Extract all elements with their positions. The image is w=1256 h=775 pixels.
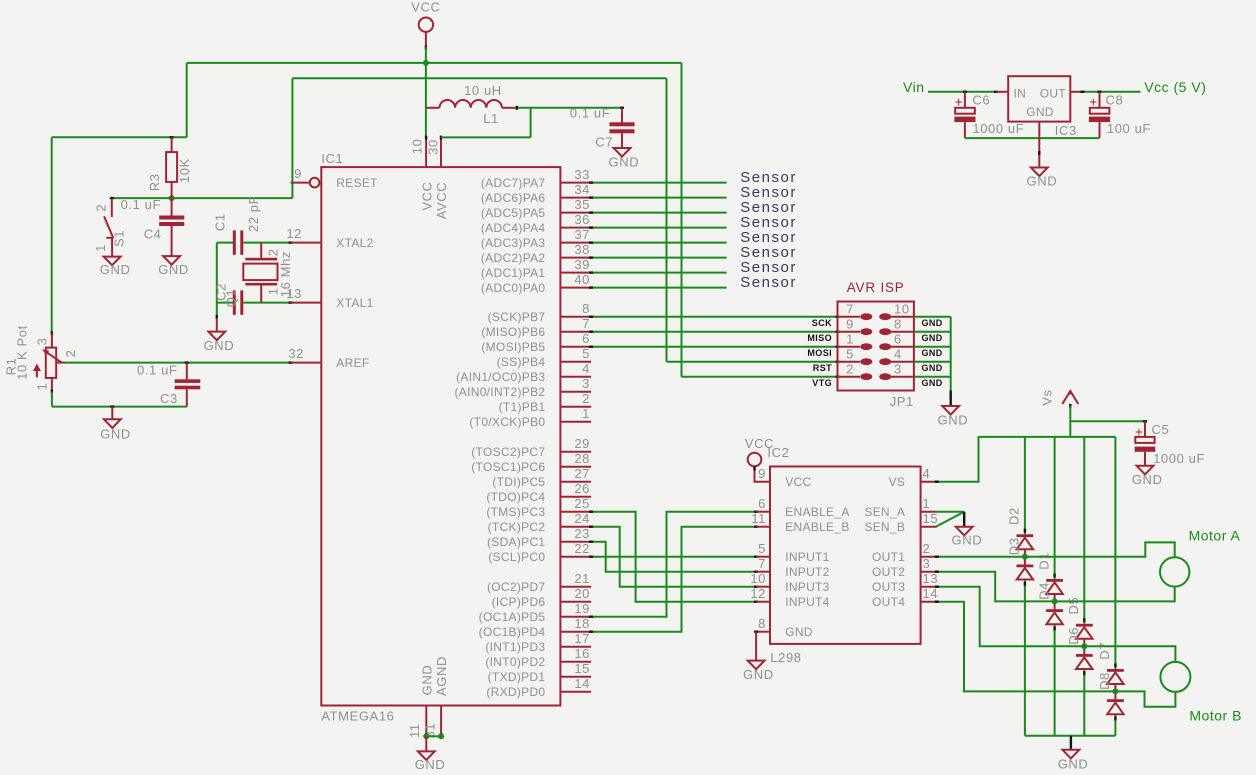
motor Motor A	[1160, 557, 1189, 586]
diode D8	[1107, 699, 1124, 714]
svg-text:GND: GND	[1026, 105, 1054, 119]
IC1 right pin stubs port PC	[560, 452, 591, 557]
svg-text:2: 2	[923, 541, 931, 556]
IC2 left pin numbers	[750, 466, 766, 631]
svg-text:SCK: SCK	[812, 318, 832, 328]
svg-text:2: 2	[63, 350, 78, 358]
svg-text:AREF: AREF	[336, 356, 369, 370]
diode D2	[1017, 534, 1034, 549]
svg-text:INPUT4: INPUT4	[785, 595, 829, 609]
svg-text:(ADC4)PA4: (ADC4)PA4	[481, 221, 546, 235]
IC1 GND AGND rotated pin names	[420, 656, 450, 696]
wire diode column D7/D8	[1114, 437, 1116, 736]
svg-text:(TCK)PC2: (TCK)PC2	[488, 520, 546, 534]
ground below C4	[158, 256, 189, 277]
svg-text:VTG: VTG	[812, 378, 832, 388]
pin 31 AGND bottom stub	[440, 706, 442, 734]
svg-text:Motor B: Motor B	[1189, 708, 1242, 724]
svg-text:(TDI)PC5: (TDI)PC5	[492, 475, 545, 489]
svg-text:VCC: VCC	[411, 0, 440, 15]
svg-text:38: 38	[574, 242, 590, 257]
svg-text:+: +	[1135, 425, 1144, 440]
svg-text:D7: D7	[1097, 642, 1112, 660]
svg-text:GND: GND	[922, 333, 943, 343]
svg-text:RST: RST	[813, 363, 832, 373]
capacitor C6	[954, 92, 975, 138]
wire L1 output to C7 and AVCC	[441, 108, 624, 138]
wire MISO net	[589, 331, 839, 333]
diode D1	[1046, 579, 1063, 594]
svg-text:1: 1	[582, 406, 590, 421]
svg-text:L298: L298	[770, 650, 801, 665]
svg-text:(ADC0)PA0: (ADC0)PA0	[481, 281, 546, 295]
svg-text:C7: C7	[595, 135, 613, 150]
svg-text:19: 19	[574, 601, 590, 616]
svg-text:Motor A: Motor A	[1189, 528, 1241, 544]
svg-text:(TXD)PD1: (TXD)PD1	[488, 670, 546, 684]
svg-text:(MOSI)PB5: (MOSI)PB5	[481, 340, 545, 354]
svg-text:5: 5	[582, 346, 590, 361]
svg-text:1000 uF: 1000 uF	[1153, 451, 1205, 466]
svg-text:(OC1A)PD5: (OC1A)PD5	[479, 610, 546, 624]
svg-text:ENABLE_B: ENABLE_B	[785, 520, 849, 534]
pin 32 AREF stub	[288, 346, 321, 363]
junction pin11	[423, 733, 429, 739]
pin 11 GND bottom stub	[425, 706, 427, 734]
ground below C7	[609, 148, 640, 170]
diode D7	[1107, 669, 1124, 684]
IC1 pin names port PC	[471, 445, 545, 564]
svg-text:VCC: VCC	[419, 181, 434, 210]
junction diode pair D7/D8	[1112, 688, 1118, 694]
wire PC2 to INPUT3	[589, 527, 758, 587]
svg-text:GND: GND	[204, 338, 235, 353]
svg-text:IC3: IC3	[1055, 123, 1077, 138]
svg-text:GND: GND	[952, 533, 983, 548]
svg-text:(AIN0/INT2)PB2: (AIN0/INT2)PB2	[455, 385, 546, 399]
svg-text:(ADC5)PA5: (ADC5)PA5	[481, 206, 546, 220]
svg-text:6: 6	[894, 332, 902, 347]
svg-text:(INT0)PD2: (INT0)PD2	[485, 655, 545, 669]
JP1 pin numbers left column 7 9 1 5 2	[846, 302, 854, 377]
IC1 pin numbers port PC	[574, 436, 590, 556]
diode D6	[1076, 654, 1093, 669]
svg-text:(T1)PB1: (T1)PB1	[499, 400, 546, 414]
IC1 right pin stubs port PD	[560, 587, 591, 692]
svg-text:OUT2: OUT2	[872, 565, 905, 579]
capacitor C7	[610, 108, 635, 148]
svg-text:11: 11	[751, 511, 766, 526]
svg-text:Sensor: Sensor	[740, 274, 797, 291]
svg-text:18: 18	[574, 616, 590, 631]
svg-text:26: 26	[574, 481, 590, 496]
labels Sensor x8	[740, 169, 797, 291]
potentiometer R1	[33, 333, 65, 393]
ground below S1	[100, 257, 131, 278]
regulator pin names IN OUT GND	[1014, 86, 1067, 119]
IC1 pin names port PD	[479, 580, 546, 699]
svg-text:3: 3	[894, 362, 902, 377]
svg-text:(ICP)PD6: (ICP)PD6	[492, 595, 546, 609]
regulator IC3	[996, 76, 1082, 121]
svg-text:2: 2	[582, 391, 590, 406]
svg-text:10: 10	[750, 571, 766, 586]
svg-text:OUT1: OUT1	[872, 550, 905, 564]
wire XTAL1 net	[217, 302, 293, 304]
svg-text:(INT1)PD3: (INT1)PD3	[485, 640, 545, 654]
inductor L1	[426, 100, 517, 110]
svg-text:(ADC6)PA6: (ADC6)PA6	[481, 191, 546, 205]
svg-text:1: 1	[923, 496, 931, 511]
net labels SCK MISO MOSI RST VTG	[807, 318, 832, 388]
svg-text:4: 4	[894, 347, 902, 362]
svg-text:10 uH: 10 uH	[464, 83, 502, 98]
svg-text:16: 16	[574, 646, 590, 661]
svg-text:11: 11	[407, 723, 422, 738]
svg-text:1: 1	[34, 383, 49, 391]
svg-text:0.1 uF: 0.1 uF	[121, 197, 161, 212]
pin 9 RESET with inversion bubble	[291, 166, 320, 187]
svg-text:29: 29	[574, 436, 590, 451]
wire Vin net	[928, 91, 998, 93]
svg-text:D2: D2	[1007, 507, 1022, 525]
svg-text:(TOSC2)PC7: (TOSC2)PC7	[471, 445, 545, 459]
capacitor C8	[1089, 92, 1110, 138]
svg-text:(ADC1)PA1: (ADC1)PA1	[481, 266, 546, 280]
svg-text:22 pF: 22 pF	[246, 196, 261, 232]
svg-text:OUT3: OUT3	[872, 580, 905, 594]
svg-text:Q1: Q1	[223, 289, 238, 308]
svg-text:14: 14	[574, 676, 590, 691]
svg-text:GND: GND	[938, 413, 969, 428]
svg-text:Vcc (5 V): Vcc (5 V)	[1144, 79, 1206, 95]
svg-text:C4: C4	[144, 227, 162, 242]
svg-text:MOSI: MOSI	[807, 348, 832, 358]
IC1 right pin stubs port PA	[560, 183, 591, 288]
svg-text:AVCC: AVCC	[434, 182, 449, 220]
pin 13 XTAL1 stub	[286, 286, 321, 303]
svg-text:12: 12	[286, 226, 302, 241]
svg-text:30: 30	[426, 139, 441, 155]
crystal Q1	[243, 243, 277, 303]
IC1 right pin stubs port PB	[560, 317, 591, 422]
svg-text:9: 9	[294, 166, 302, 181]
svg-text:D3: D3	[1007, 537, 1022, 555]
pin 10 VCC top stub	[425, 136, 427, 168]
svg-text:D5: D5	[1066, 597, 1081, 615]
capacitor C4	[159, 198, 184, 256]
ground below SEN pins	[952, 527, 983, 548]
svg-text:GND: GND	[420, 665, 435, 696]
svg-text:OUT: OUT	[1040, 86, 1067, 100]
svg-text:+: +	[955, 95, 964, 110]
pin 30 AVCC top stub	[440, 136, 442, 168]
JP1 pin pads	[838, 313, 914, 380]
svg-text:IC1: IC1	[321, 151, 343, 166]
IC1 VCC AVCC rotated pin names	[419, 181, 449, 219]
svg-text:S1: S1	[111, 230, 126, 247]
svg-text:36: 36	[574, 212, 590, 227]
svg-text:ENABLE_A: ENABLE_A	[785, 505, 849, 519]
motor Motor B	[1160, 662, 1190, 692]
svg-text:Vin: Vin	[903, 79, 924, 95]
wire OUT1 to Motor A top	[935, 542, 1175, 557]
svg-text:C5: C5	[1152, 422, 1170, 437]
ground below C5	[1132, 466, 1163, 487]
wire Vs net rail	[935, 406, 1147, 482]
ground below regulator	[1027, 168, 1058, 189]
svg-text:XTAL2: XTAL2	[336, 236, 373, 250]
wire RESET net	[110, 78, 840, 362]
svg-text:GND: GND	[158, 262, 189, 277]
svg-text:(SDA)PC1: (SDA)PC1	[487, 535, 545, 549]
svg-text:7: 7	[846, 302, 854, 317]
svg-text:1000 uF: 1000 uF	[972, 121, 1024, 136]
junction RESET/R3/C4	[169, 195, 175, 201]
svg-text:(SCL)PC0: (SCL)PC0	[488, 550, 545, 564]
svg-text:(OC2)PD7: (OC2)PD7	[487, 580, 545, 594]
capacitor C3	[175, 363, 201, 407]
wire JP1 ground bus	[914, 317, 951, 406]
junction VCC	[423, 60, 429, 66]
wire PC1 to INPUT2	[589, 542, 758, 572]
svg-text:RESET: RESET	[336, 176, 378, 190]
IC1 pin names port PA	[481, 176, 546, 295]
svg-text:(TOSC1)PC6: (TOSC1)PC6	[471, 460, 545, 474]
ground below JP1	[938, 406, 969, 428]
svg-text:4: 4	[582, 361, 590, 376]
svg-text:OUT4: OUT4	[872, 595, 905, 609]
svg-text:(OC1B)PD4: (OC1B)PD4	[479, 625, 546, 639]
wire Vcc output net	[1080, 91, 1140, 93]
svg-text:D6: D6	[1066, 627, 1081, 645]
svg-text:INPUT3: INPUT3	[785, 580, 829, 594]
svg-text:1: 1	[846, 332, 854, 347]
svg-text:AGND: AGND	[434, 656, 449, 696]
svg-text:2: 2	[94, 204, 109, 212]
connector JP1 AVR ISP body	[838, 302, 914, 391]
wire diode bottom ground rail	[1025, 736, 1116, 750]
wire PD4 to ENABLE_B	[589, 527, 758, 632]
svg-text:C6: C6	[972, 93, 990, 108]
svg-text:10 K Pot: 10 K Pot	[15, 325, 30, 380]
svg-text:35: 35	[574, 197, 590, 212]
svg-text:8: 8	[894, 317, 902, 332]
wire PD5 to ENABLE_A	[589, 512, 758, 617]
JP1 pin numbers right column 10 8 6 4 3	[894, 302, 910, 377]
wire MOSI net	[589, 346, 839, 348]
svg-text:32: 32	[288, 346, 304, 361]
svg-text:20: 20	[574, 586, 590, 601]
wire regulator GND pin	[1038, 122, 1040, 168]
svg-text:GND: GND	[785, 625, 813, 639]
wire SEN_A SEN_B to ground	[936, 512, 964, 527]
capacitor C1	[233, 230, 244, 254]
svg-text:GND: GND	[1027, 174, 1058, 189]
wire regulator ground rail	[965, 137, 1100, 139]
svg-text:Vs: Vs	[1039, 389, 1054, 405]
svg-text:(MISO)PB6: (MISO)PB6	[481, 325, 545, 339]
ground below C3 wire	[100, 407, 131, 442]
ground below diode rail	[1058, 750, 1089, 772]
svg-text:GND: GND	[415, 757, 446, 772]
svg-text:1: 1	[93, 244, 108, 252]
svg-text:VS: VS	[889, 475, 906, 489]
capacitor C5	[1135, 421, 1156, 466]
svg-text:(RXD)PD0: (RXD)PD0	[486, 685, 545, 699]
svg-text:13: 13	[923, 571, 939, 586]
wire OUT2 to Motor A bottom	[935, 572, 1175, 602]
svg-text:INPUT1: INPUT1	[785, 550, 829, 564]
svg-text:13: 13	[286, 286, 302, 301]
svg-text:5: 5	[846, 347, 854, 362]
IC2 right pin stubs	[921, 482, 937, 602]
wire VCC net	[52, 47, 840, 377]
wire SCK net	[589, 316, 839, 318]
capacitor C2	[233, 290, 244, 314]
svg-text:GND: GND	[743, 667, 774, 682]
svg-text:GND: GND	[100, 262, 131, 277]
wire diode column D2/D3	[1024, 437, 1026, 736]
svg-text:34: 34	[574, 182, 590, 197]
svg-text:33: 33	[574, 167, 590, 182]
svg-text:2: 2	[846, 362, 854, 377]
svg-text:D1: D1	[1036, 552, 1051, 570]
svg-text:R3: R3	[147, 173, 162, 191]
diode D4	[1046, 609, 1063, 624]
IC1 pin numbers port PB	[582, 301, 590, 421]
svg-text:GND: GND	[1058, 757, 1089, 772]
svg-text:0.1 uF: 0.1 uF	[570, 106, 610, 121]
wire IC1 ground joining pins 11 31	[426, 733, 441, 737]
wire crystal ground leg	[216, 243, 218, 319]
svg-text:(TDO)PC4: (TDO)PC4	[486, 490, 545, 504]
wire OUT4 to Motor B bottom	[935, 602, 1176, 707]
svg-text:L1: L1	[483, 111, 499, 126]
svg-text:GND: GND	[100, 427, 131, 442]
IC2 pin names	[785, 475, 905, 639]
svg-text:GND: GND	[922, 348, 943, 358]
svg-text:GND: GND	[922, 363, 943, 373]
svg-text:(SCK)PB7: (SCK)PB7	[488, 310, 546, 324]
svg-text:15: 15	[923, 511, 939, 526]
wire IC2 GND pin to ground	[754, 632, 758, 661]
junction pin31	[438, 733, 444, 739]
svg-text:D4: D4	[1036, 582, 1051, 600]
svg-text:6: 6	[582, 331, 590, 346]
svg-text:14: 14	[923, 586, 939, 601]
svg-text:(ADC7)PA7: (ADC7)PA7	[481, 176, 546, 190]
svg-text:40: 40	[574, 272, 590, 287]
svg-text:(SS)PB4: (SS)PB4	[497, 355, 546, 369]
svg-text:GND: GND	[922, 318, 943, 328]
diode D5	[1076, 624, 1093, 639]
svg-text:5: 5	[758, 541, 766, 556]
IC IC1 ATMEGA16 body	[321, 167, 560, 705]
wires sensor nets PA0-PA7	[589, 183, 727, 288]
VCC supply symbol at IC2	[745, 436, 774, 482]
VCC supply symbol top	[411, 0, 440, 50]
IC2 right pin numbers	[923, 466, 939, 601]
wire diode column D5/D6	[1083, 437, 1085, 736]
svg-text:VCC: VCC	[785, 475, 811, 489]
ground below crystal	[204, 318, 235, 353]
svg-text:(AIN1/OC0)PB3: (AIN1/OC0)PB3	[456, 370, 545, 384]
wire OUT3 to Motor B top	[935, 587, 1176, 662]
svg-text:(TMS)PC3: (TMS)PC3	[486, 505, 545, 519]
svg-text:INPUT2: INPUT2	[785, 565, 829, 579]
svg-text:7: 7	[582, 316, 590, 331]
svg-text:22: 22	[574, 541, 590, 556]
wire pot ground net	[52, 392, 187, 407]
IC1 pin names port PB	[455, 310, 546, 429]
wire diode column D1/D4	[1054, 437, 1056, 736]
svg-text:GND: GND	[609, 155, 640, 170]
ground below IC1	[415, 736, 446, 772]
svg-text:MISO: MISO	[807, 333, 832, 343]
pin 12 XTAL2 stub	[286, 226, 321, 243]
svg-text:27: 27	[574, 466, 590, 481]
IC1 pin numbers port PA	[574, 167, 590, 287]
svg-text:10K: 10K	[177, 158, 192, 183]
svg-text:6: 6	[758, 496, 766, 511]
svg-text:28: 28	[574, 451, 590, 466]
Vs supply symbol	[1062, 391, 1078, 408]
wire PC3 to INPUT4	[589, 512, 758, 602]
wire AREF net	[65, 362, 293, 364]
resistor R3	[166, 137, 177, 198]
svg-text:8: 8	[758, 616, 766, 631]
IC IC2 L298 body	[770, 467, 921, 644]
svg-text:4: 4	[923, 466, 931, 481]
IC1 pin numbers port PD	[574, 571, 590, 691]
svg-text:12: 12	[750, 586, 766, 601]
svg-text:C8: C8	[1106, 93, 1124, 108]
svg-text:10: 10	[410, 139, 425, 155]
svg-text:SEN_B: SEN_B	[864, 520, 905, 534]
svg-text:39: 39	[574, 257, 590, 272]
svg-text:SEN_A: SEN_A	[864, 505, 905, 519]
svg-text:AVR ISP: AVR ISP	[847, 280, 905, 295]
svg-text:XTAL1: XTAL1	[336, 296, 373, 310]
svg-text:(ADC2)PA2: (ADC2)PA2	[481, 251, 546, 265]
svg-text:JP1: JP1	[890, 394, 914, 409]
svg-text:GND: GND	[922, 378, 943, 388]
svg-text:10: 10	[894, 302, 910, 317]
svg-text:ATMEGA16: ATMEGA16	[321, 709, 394, 724]
diode D3	[1017, 565, 1034, 580]
svg-text:9: 9	[846, 317, 854, 332]
wire PC0 to INPUT1	[589, 556, 758, 558]
svg-text:3: 3	[582, 376, 590, 391]
junction diode pair D2/D3	[1022, 554, 1028, 560]
svg-text:D8: D8	[1097, 672, 1112, 690]
svg-text:IN: IN	[1014, 86, 1027, 100]
svg-text:25: 25	[574, 496, 590, 511]
svg-text:VCC: VCC	[745, 436, 774, 451]
svg-text:GND: GND	[1132, 472, 1163, 487]
ground below IC2	[743, 661, 774, 682]
svg-text:100 uF: 100 uF	[1107, 121, 1151, 136]
svg-text:(ADC3)PA3: (ADC3)PA3	[481, 236, 546, 250]
IC1 left pin names	[336, 176, 378, 370]
svg-text:15: 15	[574, 661, 590, 676]
svg-text:+: +	[1089, 95, 1098, 110]
net labels GND x5 right of JP1	[922, 318, 943, 388]
svg-text:3: 3	[923, 556, 931, 571]
svg-text:C1: C1	[213, 213, 228, 231]
svg-text:24: 24	[574, 511, 590, 526]
